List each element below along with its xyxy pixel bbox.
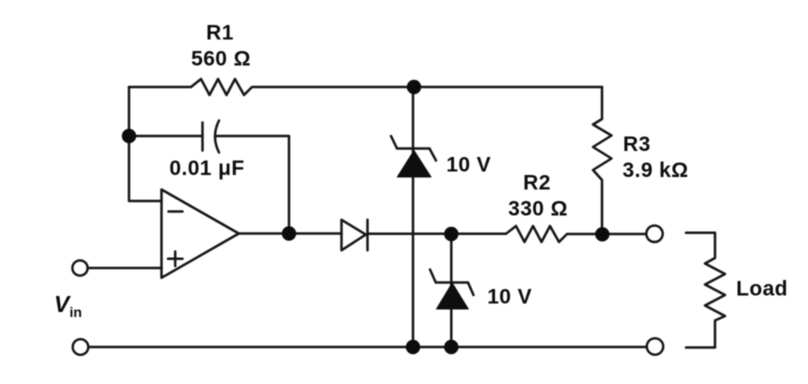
svg-text:Load: Load	[736, 278, 788, 301]
svg-text:560 Ω: 560 Ω	[191, 48, 251, 71]
svg-text:R1: R1	[206, 22, 234, 45]
svg-text:330 Ω: 330 Ω	[508, 198, 568, 221]
svg-text:10 V: 10 V	[446, 154, 491, 177]
svg-text:V: V	[54, 291, 71, 317]
svg-text:0.01 μF: 0.01 μF	[169, 157, 244, 180]
svg-text:3.9 kΩ: 3.9 kΩ	[623, 159, 689, 182]
svg-text:10 V: 10 V	[487, 286, 532, 309]
svg-text:R3: R3	[623, 133, 651, 156]
svg-text:in: in	[70, 304, 82, 320]
svg-text:R2: R2	[523, 172, 551, 195]
